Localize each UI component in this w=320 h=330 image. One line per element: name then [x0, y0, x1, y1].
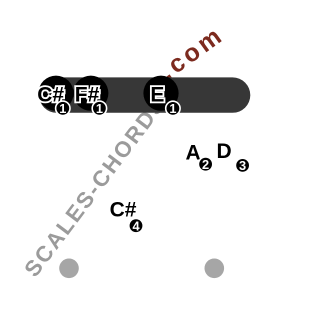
svg-text:D: D [217, 140, 232, 163]
svg-text:4: 4 [132, 218, 140, 233]
disc C# [38, 76, 73, 111]
svg-text:E: E [150, 84, 164, 107]
finger 3 circle (D) [235, 158, 249, 173]
svg-text:1: 1 [96, 101, 103, 116]
finger 4 circle (C#) [129, 218, 143, 233]
finger 2 circle (A) [198, 157, 212, 172]
svg-text:1: 1 [169, 101, 176, 116]
finger 1 circle (C#) [56, 101, 70, 116]
fret marker dot left [59, 259, 79, 279]
barre bar [39, 77, 250, 112]
svg-text:3: 3 [239, 158, 246, 173]
disc F# [73, 76, 108, 111]
fret marker dot right [205, 259, 225, 279]
svg-text:2: 2 [202, 157, 209, 172]
finger 1 circle (F#) [92, 101, 106, 116]
finger 1 circle (E) [166, 101, 180, 116]
svg-text:1: 1 [59, 101, 66, 116]
disc E [143, 76, 178, 111]
